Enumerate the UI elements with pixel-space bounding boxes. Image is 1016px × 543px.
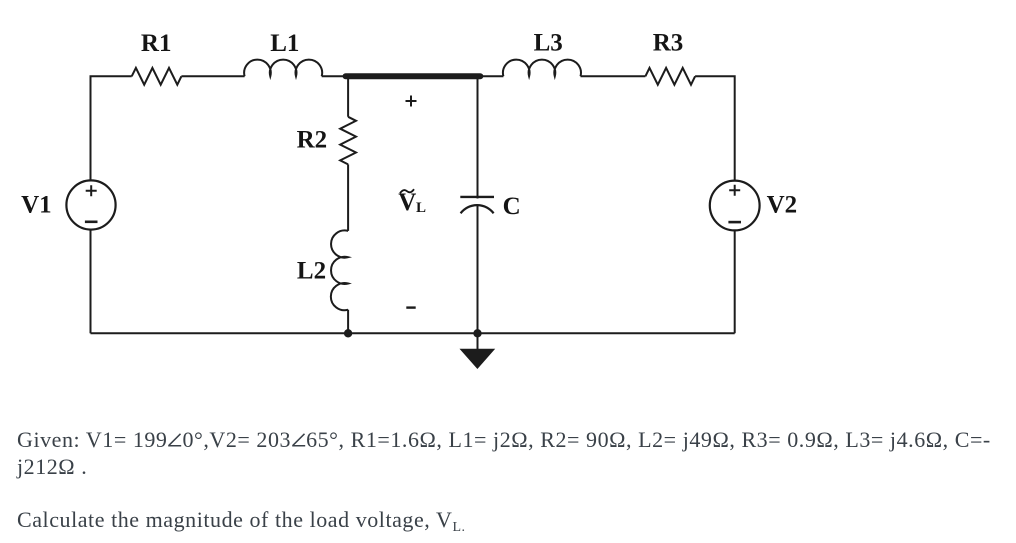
tilde over V of VL: [400, 189, 414, 193]
svg-text:L: L: [416, 200, 426, 216]
wire: bar down to capacitor: [477, 78, 479, 199]
svg-text:C: C: [503, 193, 521, 220]
inductor L1: [244, 60, 322, 77]
svg-text:R3: R3: [653, 30, 684, 57]
wire: capacitor to bottom rail: [477, 205, 479, 333]
plus mark of load voltage: [406, 96, 417, 107]
given data paragraph: [17, 427, 991, 480]
capacitor C curved plate: [461, 205, 494, 213]
inductor L3: [503, 60, 581, 77]
svg-text:R1: R1: [141, 30, 172, 57]
wire: right rail below V2: [734, 230, 736, 333]
junction dot at L2 bottom: [344, 329, 352, 337]
junction dot at capacitor bottom: [473, 329, 481, 337]
svg-text:L1: L1: [270, 30, 299, 57]
resistor R2: [340, 117, 356, 165]
wire: left rail below V1: [90, 230, 92, 334]
wire: bottom rail: [91, 332, 735, 334]
svg-text:L3: L3: [534, 30, 563, 57]
minus mark of load voltage: [406, 306, 415, 308]
capacitor C top plate: [460, 196, 494, 198]
V2 plus sign: [729, 185, 740, 196]
svg-text:V2: V2: [767, 192, 798, 219]
wire: R2 to L2: [347, 164, 349, 231]
ground stub: [477, 333, 479, 350]
question paragraph: [17, 507, 466, 534]
wire: L3 to R3: [581, 75, 646, 77]
svg-text:L2: L2: [297, 258, 326, 285]
inductor L2: [331, 230, 348, 310]
svg-text:V1: V1: [21, 192, 52, 219]
wire: node bar to L3: [480, 75, 503, 77]
V1 minus sign: [85, 221, 98, 224]
voltage source V2: [710, 181, 760, 231]
wire: node bar down to R2: [347, 78, 349, 117]
voltage source V1: [66, 180, 115, 229]
V2 minus sign: [728, 221, 741, 224]
svg-text:R2: R2: [297, 127, 328, 154]
node bar (thick top node): [346, 73, 481, 79]
ground triangle: [461, 349, 495, 368]
wire: L2 to bottom rail: [347, 310, 349, 334]
resistor R1: [132, 68, 182, 85]
wire: R3 to right rail top: [695, 76, 735, 180]
wire: L1 to node bar: [322, 75, 346, 77]
V1 plus sign: [86, 185, 97, 196]
resistor R3: [645, 68, 695, 85]
wire: left rail top + top wire to R1: [91, 76, 132, 180]
wire: R1 to L1: [181, 75, 244, 77]
